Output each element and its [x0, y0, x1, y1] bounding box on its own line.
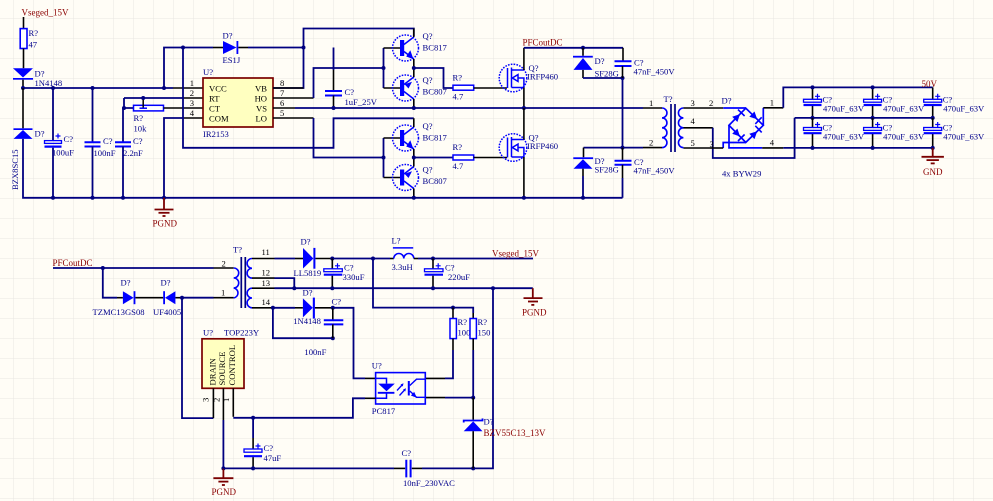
- svg-text:14: 14: [262, 297, 271, 307]
- svg-text:R?: R?: [458, 317, 468, 327]
- wire UF4005 to pin1: [175, 297, 182, 299]
- svg-text:SOURCE: SOURCE: [217, 352, 227, 386]
- svg-text:D?: D?: [301, 237, 311, 247]
- svg-text:4: 4: [691, 116, 696, 126]
- svg-text:100uF: 100uF: [52, 148, 74, 158]
- transistor Q? BC817 bottom: [393, 125, 419, 151]
- node emitters top pair: [412, 66, 416, 70]
- pin T2 pin12: [252, 277, 275, 279]
- svg-text:C?: C?: [445, 263, 455, 273]
- capacitor C? 330uF: [331, 259, 333, 269]
- svg-text:ES1J: ES1J: [223, 55, 241, 65]
- svg-text:470uF_63V: 470uF_63V: [943, 132, 985, 142]
- svg-text:8: 8: [280, 78, 284, 88]
- wire opto cathode to control: [365, 397, 376, 399]
- svg-text:10k: 10k: [134, 124, 148, 134]
- capacitor C? 470uF_63V bank1c: [924, 87, 985, 120]
- wire VCC riser to ES1J: [164, 48, 213, 89]
- svg-text:1: 1: [221, 288, 225, 298]
- svg-text:470uF_63V: 470uF_63V: [943, 104, 985, 114]
- wire R100 to opto collector: [452, 339, 454, 350]
- svg-text:T?: T?: [664, 94, 673, 104]
- wire plus rail: [783, 87, 932, 107]
- svg-text:5: 5: [280, 108, 284, 118]
- svg-text:6: 6: [280, 98, 285, 108]
- svg-text:1: 1: [221, 398, 231, 402]
- diode D? SF28G bottom: [583, 148, 585, 158]
- svg-text:BC817: BC817: [423, 133, 448, 143]
- pin TOP223Y pin2 source: [222, 388, 224, 420]
- svg-text:HO: HO: [255, 94, 267, 104]
- svg-text:100nF: 100nF: [304, 347, 326, 357]
- wire opto emitter: [425, 397, 445, 399]
- wire power stub: [23, 17, 25, 29]
- svg-text:1: 1: [190, 78, 194, 88]
- wire pin11 to rectifier: [275, 258, 296, 260]
- zener D? BZX85C15: [14, 128, 33, 130]
- coil T1 secondary upper: [678, 108, 683, 128]
- capacitor C? 100nF: [92, 88, 94, 142]
- svg-text:BZX8SC15: BZX8SC15: [10, 149, 20, 190]
- resistor R? 150: [472, 313, 474, 319]
- svg-text:50V: 50V: [922, 79, 938, 89]
- wire drain top fet: [523, 48, 525, 70]
- transistor Q? IRFP460 top: [499, 64, 527, 92]
- svg-text:2: 2: [211, 398, 221, 402]
- capacitor C? 47nF_450V bottom: [622, 148, 624, 161]
- svg-text:D?: D?: [722, 96, 732, 106]
- core T1: [671, 104, 675, 152]
- wire RT net: [124, 98, 184, 108]
- ground PGND symbol bottom: [213, 468, 233, 485]
- svg-text:D?: D?: [121, 278, 131, 288]
- svg-text:IRFP460: IRFP460: [527, 72, 558, 82]
- transistor Q? BC807 bottom: [393, 165, 419, 191]
- diode bridge TL: [732, 114, 740, 122]
- svg-text:T?: T?: [233, 245, 242, 255]
- zener D? BZV55C13: [472, 398, 474, 420]
- svg-text:U?: U?: [203, 67, 213, 77]
- svg-text:4x BYW29: 4x BYW29: [722, 169, 761, 179]
- diode D? UF4005: [163, 291, 165, 304]
- svg-text:U?: U?: [372, 361, 382, 371]
- node VCC junction: [21, 86, 25, 90]
- svg-text:R?: R?: [478, 317, 488, 327]
- wire emitters to gate resistor: [414, 68, 453, 88]
- bridge diamond outline: [729, 108, 763, 142]
- svg-text:D?: D?: [35, 69, 45, 79]
- svg-text:1N4148: 1N4148: [293, 316, 321, 326]
- svg-text:100: 100: [458, 327, 471, 337]
- wire PFCoutDC feed: [53, 267, 103, 269]
- transistor Q? IRFP460 bottom: [499, 134, 527, 162]
- pin TOP223Y pin3 drain: [212, 388, 214, 418]
- wire ES1J cathode to VB node: [248, 47, 304, 49]
- svg-text:10nF_230VAC: 10nF_230VAC: [403, 478, 455, 488]
- capacitor C? 470uF_63V bank1a: [804, 85, 865, 120]
- pin bridge pin3 step: [723, 143, 746, 149]
- wire R150 to zener node: [472, 339, 474, 350]
- pin T2 pin11: [252, 258, 275, 260]
- wire bases vertical bottom pair: [383, 138, 385, 178]
- svg-text:Q?: Q?: [423, 31, 433, 41]
- svg-text:2: 2: [222, 259, 226, 269]
- wire output bus 15V: [330, 257, 334, 261]
- svg-text:3.3uH: 3.3uH: [392, 262, 413, 272]
- wire COM net: [164, 118, 184, 198]
- svg-text:VCC: VCC: [209, 84, 227, 94]
- svg-text:5: 5: [691, 138, 695, 148]
- node ES1J anode junction: [181, 46, 185, 50]
- pin T1 pin3: [683, 107, 723, 109]
- pin TOP223Y pin1 control: [232, 388, 234, 417]
- pin T1 pin4: [683, 127, 712, 129]
- svg-text:IRFP460: IRFP460: [527, 141, 558, 151]
- svg-text:SF28G: SF28G: [595, 165, 619, 175]
- wire drain net: [182, 298, 213, 418]
- diode bridge BR: [749, 131, 757, 139]
- pin LO pin5: [273, 117, 314, 119]
- svg-text:PFCoutDC: PFCoutDC: [523, 37, 563, 47]
- svg-text:2: 2: [649, 138, 653, 148]
- svg-text:4: 4: [770, 138, 775, 148]
- pin CT pin3: [164, 107, 204, 109]
- wire VS rail: [295, 107, 643, 109]
- svg-text:VB: VB: [255, 84, 267, 94]
- wire emitters to gate resistor bottom: [414, 157, 453, 159]
- wire to clamp diodes: [103, 268, 117, 298]
- svg-text:R?: R?: [29, 28, 39, 38]
- wire mid rail caps: [795, 117, 933, 119]
- svg-text:D?: D?: [303, 288, 313, 298]
- pin T2 pin13: [252, 287, 275, 289]
- svg-text:U?: U?: [203, 328, 213, 338]
- wire source to PGND: [222, 420, 224, 468]
- capacitor C? 470uF_63V bank1b: [864, 85, 925, 120]
- pin bridge pin4: [729, 125, 762, 148]
- svg-text:220uF: 220uF: [448, 272, 470, 282]
- coil T2 primary: [234, 268, 239, 298]
- switcher U? TOP223Y: [202, 339, 244, 389]
- pin VCC pin1: [173, 87, 203, 89]
- wire Y-cap to sec ground: [422, 288, 493, 468]
- svg-text:C?: C?: [264, 443, 274, 453]
- svg-text:SF28G: SF28G: [595, 69, 619, 79]
- capacitor C? 47uF: [252, 418, 254, 438]
- svg-text:R?: R?: [453, 73, 463, 83]
- pin VB pin8 riser: [273, 48, 304, 89]
- svg-text:TOP223Y: TOP223Y: [224, 328, 259, 338]
- svg-text:3: 3: [200, 398, 210, 402]
- svg-text:13: 13: [262, 278, 271, 288]
- pin bridge pin1: [762, 108, 764, 126]
- pin gate wire top: [474, 87, 507, 89]
- wire PFCoutDC bus: [524, 47, 623, 49]
- svg-text:470uF_63V: 470uF_63V: [823, 104, 865, 114]
- wire R to D: [23, 49, 25, 69]
- svg-text:CONTROL: CONTROL: [227, 345, 237, 386]
- capacitor C? 10nF_230VAC: [406, 460, 410, 478]
- diode D? ES1J: [213, 47, 223, 49]
- diode bridge BL: [732, 129, 740, 137]
- wire L to Vseged_15V: [418, 258, 533, 260]
- svg-text:D?: D?: [595, 56, 605, 66]
- svg-text:C?: C?: [332, 297, 342, 307]
- wire snubber2 anode to rail: [582, 176, 584, 198]
- svg-text:LO: LO: [256, 114, 267, 124]
- wire zener stub: [22, 88, 24, 128]
- resistor R? 47: [20, 29, 27, 49]
- phototransistor PC817: [408, 381, 410, 396]
- pin gate wire bottom: [474, 157, 507, 159]
- photon arrows PC817: [397, 385, 405, 396]
- svg-text:D?: D?: [161, 278, 171, 288]
- svg-text:47nF_450V: 47nF_450V: [634, 166, 676, 176]
- ground GND symbol: [922, 148, 944, 164]
- pin T1 pin5: [683, 147, 710, 149]
- core T2: [241, 257, 245, 308]
- wire VCC horizontal: [23, 87, 173, 89]
- svg-text:IR2153: IR2153: [203, 129, 229, 139]
- wire pin2 feed: [103, 267, 214, 269]
- coil T1 secondary lower: [678, 128, 683, 148]
- svg-text:VS: VS: [256, 104, 267, 114]
- diode D? LL5819: [303, 248, 313, 269]
- wire LO to bases: [314, 118, 384, 158]
- capacitor C? 470uF_63V bank2a: [804, 118, 865, 150]
- resistor R? 100: [452, 308, 454, 319]
- svg-text:R?: R?: [453, 142, 463, 152]
- wire VB rail to Q1 collector: [304, 29, 414, 48]
- capacitor C? 1uF_25V: [333, 48, 335, 71]
- diode D? SF28G top: [582, 48, 584, 56]
- svg-text:C?: C?: [344, 263, 354, 273]
- svg-text:CT: CT: [209, 104, 221, 114]
- node emitters bottom pair: [412, 156, 416, 160]
- op-amp U? IR2153 body: [203, 78, 273, 127]
- svg-text:47: 47: [29, 40, 38, 50]
- wire bottom Y-cap net: [223, 467, 394, 469]
- svg-text:11: 11: [262, 247, 270, 257]
- potentiometer R? 10k: [134, 105, 164, 111]
- svg-text:PFCoutDC: PFCoutDC: [53, 258, 93, 268]
- wire source top fet: [523, 88, 525, 109]
- capacitor C? 220uF: [432, 259, 434, 269]
- svg-text:330uF: 330uF: [343, 272, 365, 282]
- svg-text:1N4148: 1N4148: [35, 78, 63, 88]
- svg-text:PGND: PGND: [212, 487, 237, 497]
- svg-text:Q?: Q?: [423, 121, 433, 131]
- node VB junction: [302, 46, 306, 50]
- capacitor C? 100nF aux: [332, 308, 334, 320]
- wire secondary ground rail: [275, 287, 533, 289]
- svg-text:7: 7: [280, 88, 285, 98]
- wire transformer pin2: [584, 147, 644, 149]
- coil T1 primary: [662, 108, 667, 148]
- transistor Q? BC807 top: [393, 75, 419, 101]
- wire snubber node to pin2: [622, 78, 624, 148]
- svg-text:PGND: PGND: [522, 308, 547, 318]
- svg-text:UF4005: UF4005: [153, 307, 181, 317]
- svg-text:1: 1: [649, 98, 653, 108]
- wire pin12 return: [275, 278, 295, 288]
- svg-text:C?: C?: [64, 134, 74, 144]
- wire D to node: [22, 80, 24, 88]
- pin HO pin7: [273, 97, 314, 99]
- svg-text:12: 12: [262, 268, 271, 278]
- pin VS pin6: [273, 107, 295, 109]
- svg-text:LL5819: LL5819: [294, 268, 322, 278]
- wire minus rail: [783, 147, 932, 149]
- svg-text:C?: C?: [133, 136, 143, 146]
- capacitor C? 2.2nF: [122, 108, 124, 142]
- svg-text:4: 4: [190, 108, 195, 118]
- wire snubber top link: [583, 77, 623, 79]
- wire HO to bases: [314, 68, 384, 98]
- svg-text:Q?: Q?: [423, 165, 433, 175]
- diode D? TZMC13GS08: [123, 291, 134, 304]
- svg-text:BC807: BC807: [423, 176, 448, 186]
- svg-text:PC817: PC817: [372, 406, 396, 416]
- optocoupler U? PC817: [376, 373, 426, 404]
- svg-text:RT: RT: [209, 94, 220, 104]
- LED inside PC817: [376, 378, 387, 383]
- capacitor C? 470uF_63V bank2c: [924, 118, 985, 150]
- pin RT pin2: [184, 97, 203, 99]
- svg-text:1uF_25V: 1uF_25V: [345, 97, 378, 107]
- svg-text:47nF_450V: 47nF_450V: [634, 67, 676, 77]
- svg-text:4.7: 4.7: [453, 161, 464, 171]
- svg-text:D?: D?: [484, 417, 494, 427]
- wire drain bottom fet: [523, 108, 525, 140]
- diode D? 1N4148 aux: [303, 298, 313, 317]
- svg-text:100nF: 100nF: [94, 148, 116, 158]
- svg-text:470uF_63V: 470uF_63V: [883, 104, 925, 114]
- resistor R? 4.7 bottom: [453, 155, 474, 160]
- wire source bottom fet: [523, 157, 525, 198]
- svg-text:BC817: BC817: [423, 43, 448, 53]
- svg-text:2: 2: [190, 88, 194, 98]
- pin T2 pin14: [252, 307, 273, 309]
- svg-text:3: 3: [710, 139, 714, 149]
- svg-text:TZMC13GS08: TZMC13GS08: [93, 307, 145, 317]
- svg-text:L?: L?: [392, 236, 401, 246]
- svg-text:Q?: Q?: [423, 75, 433, 85]
- wire pin14 net: [271, 306, 275, 310]
- svg-text:R?: R?: [134, 113, 144, 123]
- svg-text:2: 2: [709, 98, 713, 108]
- pin T1 pin2: [643, 147, 662, 149]
- pin COM pin4: [184, 117, 203, 119]
- wire zener to rail: [23, 139, 623, 198]
- svg-text:Vseged_15V: Vseged_15V: [492, 248, 539, 258]
- svg-text:DRAIN: DRAIN: [207, 357, 217, 385]
- svg-text:4.7: 4.7: [453, 92, 464, 102]
- pin T1 pin1: [643, 107, 662, 109]
- wire 15V to feedback resistors: [373, 259, 453, 308]
- wire aux to opto anode: [333, 308, 365, 379]
- inductor L? 3.3uH: [390, 258, 394, 260]
- capacitor C? 470uF_63V bank2b: [864, 118, 925, 150]
- wire VCC drop to low driver: [183, 48, 414, 148]
- transistor Q? BC817 top: [393, 35, 419, 61]
- wire center tap to mid rail: [713, 118, 795, 158]
- svg-text:C?: C?: [103, 136, 113, 146]
- wire between clamp diodes: [135, 297, 163, 299]
- svg-text:1: 1: [770, 98, 774, 108]
- coil T2 winding 13-14: [247, 288, 252, 308]
- coil T2 winding 11-12: [247, 259, 252, 279]
- svg-text:C?: C?: [345, 87, 355, 97]
- svg-text:2.2nF: 2.2nF: [123, 148, 143, 158]
- ground PGND symbol mid: [524, 288, 543, 305]
- diode bridge TR: [749, 112, 757, 120]
- svg-text:Vseged_15V: Vseged_15V: [22, 8, 69, 18]
- resistor R? 4.7 top: [453, 85, 474, 90]
- capacitor C? 47nF_450V top: [622, 48, 624, 62]
- svg-text:COM: COM: [209, 114, 229, 124]
- ground PGND symbol: [155, 198, 174, 216]
- wire bases vertical top pair: [383, 48, 385, 88]
- svg-text:GND: GND: [923, 167, 943, 177]
- svg-text:470uF_63V: 470uF_63V: [883, 132, 925, 142]
- capacitor C? 100uF: [52, 88, 54, 141]
- svg-text:47uF: 47uF: [264, 453, 282, 463]
- diode D? 1N4148: [13, 68, 33, 77]
- svg-text:C?: C?: [402, 448, 412, 458]
- pin bridge pin2 stub: [723, 107, 746, 109]
- svg-text:D?: D?: [223, 31, 233, 41]
- svg-text:PGND: PGND: [153, 219, 178, 229]
- svg-text:470uF_63V: 470uF_63V: [823, 132, 865, 142]
- svg-text:BZV55C13_13V: BZV55C13_13V: [484, 428, 547, 438]
- svg-text:3: 3: [190, 98, 194, 108]
- node aux output: [331, 306, 335, 310]
- svg-text:3: 3: [691, 98, 695, 108]
- svg-text:D?: D?: [35, 129, 45, 139]
- svg-text:150: 150: [478, 327, 491, 337]
